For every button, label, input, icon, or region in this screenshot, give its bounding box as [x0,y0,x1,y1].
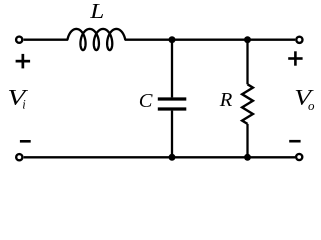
junction node bottom-R [244,154,251,161]
svg-text:i: i [22,98,26,112]
capacitor C bottom lead [171,111,173,158]
terminal top-left [16,37,22,43]
wire bottom [24,156,295,158]
terminal bottom-left [16,154,22,160]
minus sign left [20,140,31,143]
resistor R zigzag [242,84,253,124]
wire top-right segment [125,39,295,41]
resistor R bottom lead [246,124,248,157]
svg-text:R: R [219,89,233,111]
svg-text:o: o [308,98,315,113]
svg-text:C: C [139,90,153,112]
resistor R top lead [246,40,248,85]
junction node top-R [244,36,251,43]
terminal bottom-right [296,154,302,160]
plus sign left [16,54,31,69]
capacitor C top lead [171,40,173,98]
minus sign right [289,140,300,143]
terminal top-right [296,37,302,43]
wire top-left segment [24,39,68,41]
inductor L [68,29,126,50]
junction node bottom-C [169,154,176,161]
junction node top-C [169,36,176,43]
capacitor C plates [158,97,187,100]
svg-text:L: L [89,0,104,24]
plus sign right [288,51,302,65]
